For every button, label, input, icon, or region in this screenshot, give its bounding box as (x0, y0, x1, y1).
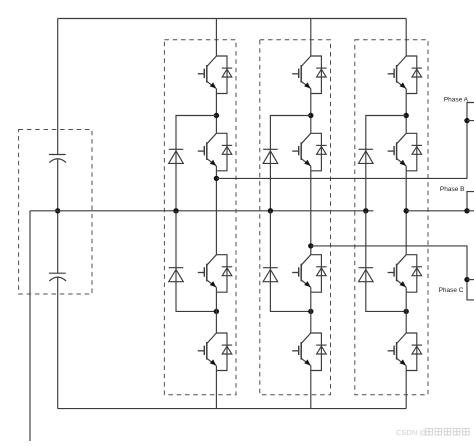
node leg 1 lower clamp junction (214, 309, 219, 314)
diode Dc11 (clamp) (169, 149, 184, 163)
diode Dc22 (clamp) (263, 268, 278, 282)
wire leg 1 mid vertical (phase column) (215, 171, 217, 255)
node leg 3 upper clamp junction (404, 113, 409, 118)
transistor Q31 (IGBT) (388, 56, 407, 94)
capacitor C2 (lower DC-link) (49, 273, 66, 281)
diode D14 (anti-parallel across Q14) (216, 333, 232, 371)
diode D33 (anti-parallel across Q33) (406, 255, 422, 293)
wire phase C port stub (467, 279, 474, 281)
transistor Q11 (IGBT) (198, 56, 217, 94)
diode D22 (anti-parallel across Q22) (311, 133, 327, 171)
svg-text:CSDN @: CSDN @ (396, 428, 427, 437)
diode D11 (anti-parallel across Q11) (216, 56, 232, 94)
node phase C tap (leg 2 midpoint) (308, 243, 313, 248)
wire leg 2 Q23-Q24 (310, 292, 312, 333)
transistor Q23 (IGBT) (292, 255, 311, 293)
transistor Q21 (IGBT) (292, 56, 311, 94)
wire leg 2 mid vertical (phase column) (310, 171, 312, 255)
node phase B tap (leg 3 midpoint) (404, 208, 409, 213)
capacitor C1 (upper DC-link) (49, 155, 66, 163)
node phase A tap (leg 1 midpoint) (214, 176, 219, 181)
node phase A port junction (464, 118, 469, 123)
wire phase C routing (311, 246, 474, 300)
diode D31 (anti-parallel across Q31) (406, 56, 422, 94)
svg-text:Phase C: Phase C (439, 287, 464, 294)
transistor Q33 (IGBT) (388, 255, 407, 293)
wire leg 1 lower clamp to lower junction (176, 211, 216, 312)
transistor Q12 (IGBT) (198, 133, 217, 171)
junction leg 2 clamp-neutral (268, 208, 273, 213)
transistor Q32 (IGBT) (388, 133, 407, 171)
phase-leg 3 enclosure (dashed) (355, 40, 428, 395)
DC-link enclosure (dashed) (19, 130, 92, 295)
diode D24 (anti-parallel across Q24) (311, 333, 327, 371)
diode D34 (anti-parallel across Q34) (406, 333, 422, 371)
watermark CSDN (396, 428, 469, 437)
wire leg 3 from DC+ bus (405, 19, 407, 57)
junction: capacitor midpoint / neutral (55, 208, 60, 213)
wire DC- bus (58, 408, 407, 410)
wire leg 1 to DC- bus (215, 371, 217, 409)
phase-leg 1 enclosure (dashed) (164, 40, 236, 395)
transistor Q24 (IGBT) (292, 333, 311, 371)
node leg 1 upper clamp junction (214, 113, 219, 118)
wire leg 3 Q31-Q32 (405, 94, 407, 134)
node phase B port junction (464, 208, 469, 213)
node leg 3 lower clamp junction (404, 309, 409, 314)
junction leg 3 clamp-neutral (363, 208, 368, 213)
diode D21 (anti-parallel across Q21) (311, 56, 327, 94)
wire DC-link vertical (capacitor string) (57, 19, 59, 409)
wire leg 2 lower clamp to lower junction (270, 211, 310, 312)
wire phase A port stub (467, 120, 474, 122)
wire leg 2 to DC- bus (310, 371, 312, 409)
phase-leg 2 enclosure (dashed) (260, 40, 331, 395)
wire leg 2 from DC+ bus (310, 19, 312, 57)
transistor Q34 (IGBT) (388, 333, 407, 371)
wire leg 1 Q11-Q12 (215, 94, 217, 134)
wire leg 3 lower clamp to lower junction (366, 211, 406, 312)
svg-text:Phase B: Phase B (440, 186, 465, 193)
wire leg 2 to upper clamp diode (270, 116, 310, 211)
diode D13 (anti-parallel across Q13) (216, 255, 232, 293)
wire neutral bus (30, 210, 374, 212)
node leg 2 upper clamp junction (308, 113, 313, 118)
diode D32 (anti-parallel across Q32) (406, 133, 422, 171)
wire leg 3 Q33-Q34 (405, 292, 407, 333)
junction leg 1 clamp-neutral (173, 208, 178, 213)
wire leg 1 Q13-Q14 (215, 292, 217, 333)
wire neutral output lead (down-left) (29, 211, 31, 441)
wire leg 3 to upper clamp diode (366, 116, 406, 211)
diode Dc21 (clamp) (263, 149, 278, 163)
wire leg 1 from DC+ bus (215, 19, 217, 57)
diode D23 (anti-parallel across Q23) (311, 255, 327, 293)
node phase C port junction (464, 277, 469, 282)
transistor Q22 (IGBT) (292, 133, 311, 171)
wire leg 3 to DC- bus (405, 371, 407, 409)
svg-text:Phase A: Phase A (444, 97, 469, 104)
diode D12 (anti-parallel across Q12) (216, 133, 232, 171)
transistor Q14 (IGBT) (198, 333, 217, 371)
diode Dc12 (clamp) (169, 268, 184, 282)
wire leg 2 Q21-Q22 (310, 94, 312, 134)
diode Dc32 (clamp) (359, 268, 374, 282)
wire DC+ bus (58, 18, 407, 20)
diode Dc31 (clamp) (359, 149, 374, 163)
wire phase B port stub (467, 210, 474, 212)
wire leg 3 mid vertical (phase column) (405, 171, 407, 255)
wire phase A routing (216, 103, 474, 179)
wire leg 1 to upper clamp diode (176, 116, 216, 211)
wire phase B routing (406, 192, 474, 211)
transistor Q13 (IGBT) (198, 255, 217, 293)
node leg 2 lower clamp junction (308, 309, 313, 314)
